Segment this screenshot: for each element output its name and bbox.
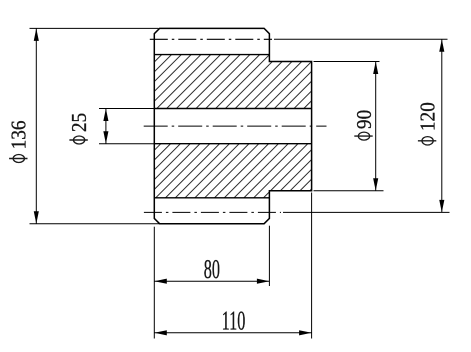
label phi120: [417, 102, 440, 145]
svg-text:25: 25: [68, 113, 91, 132]
dimension line phi120: [441, 39, 443, 212]
arrow 110 left: [154, 330, 167, 335]
extension line phi120 bottom: [283, 211, 450, 213]
arrow 80 left: [154, 279, 167, 284]
pitch centerline bottom: [144, 211, 281, 213]
extension line phi25 bottom: [99, 143, 154, 145]
arrow 80 right: [257, 279, 270, 284]
label phi25: [68, 113, 91, 144]
dimension line 80: [154, 280, 269, 282]
arrow phi136 top: [34, 28, 39, 41]
arrow phi136 bottom: [34, 211, 39, 224]
svg-text:110: 110: [222, 305, 246, 335]
svg-text:120: 120: [417, 102, 440, 131]
label phi136: [8, 120, 31, 162]
arrow phi25 top: [103, 109, 108, 122]
extension line phi136 top: [30, 27, 159, 29]
svg-text:90: 90: [353, 110, 376, 129]
hatch region gear lower: [154, 144, 269, 198]
arrow phi90 top: [373, 62, 378, 75]
arrow phi120 top: [439, 39, 444, 52]
arrow 110 right: [299, 330, 312, 335]
extension line phi90 bottom: [314, 190, 384, 192]
main centerline: [144, 125, 327, 127]
extension line phi90 top: [314, 61, 380, 63]
arrow phi120 bottom: [439, 200, 444, 213]
extension line 80/110 left: [153, 227, 155, 339]
arrow phi90 bottom: [373, 178, 378, 191]
dimension line phi25: [105, 109, 107, 144]
label phi90: [353, 110, 376, 140]
root line bottom: [154, 197, 269, 199]
bore line top: [154, 108, 311, 110]
dimension line phi90: [375, 62, 377, 191]
pitch centerline top: [150, 38, 272, 40]
part silhouette: gear blank + hub step (chamfered): [154, 28, 311, 223]
hatch region gear upper: [154, 55, 269, 109]
svg-text:80: 80: [204, 254, 220, 284]
svg-text:136: 136: [8, 120, 31, 149]
extension line phi25 top: [99, 108, 154, 110]
extension line phi136 bottom: [30, 223, 160, 225]
dimension line phi136: [35, 28, 37, 223]
extension line 80 right: [268, 226, 270, 286]
root line top: [154, 54, 269, 56]
arrow phi25 bottom: [103, 131, 108, 144]
extension line 110 right: [311, 193, 313, 339]
hatch region hub lower: [269, 144, 311, 191]
hatch region hub upper: [269, 62, 311, 109]
dimension line 110: [154, 332, 311, 334]
extension line phi120 top: [274, 38, 448, 40]
bore line bottom: [154, 143, 311, 145]
